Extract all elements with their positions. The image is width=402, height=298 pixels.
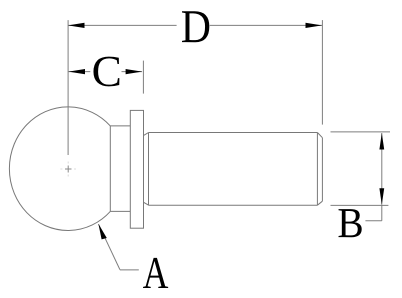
label C xyxy=(93,57,119,87)
center mark dash bottom xyxy=(67,175,69,177)
D dimension line right segment xyxy=(210,24,322,26)
center mark dash right xyxy=(74,168,76,170)
shaft left chamfer edge xyxy=(148,133,150,206)
flange xyxy=(130,110,143,228)
label B xyxy=(339,209,362,237)
neck top edge xyxy=(110,125,130,127)
extension line at flange face (C) xyxy=(142,61,144,94)
shaft top edge xyxy=(149,132,318,134)
center mark cross vertical xyxy=(67,166,69,173)
C dimension line left segment xyxy=(69,71,91,73)
shaft bottom edge xyxy=(149,204,318,206)
B extension line bottom xyxy=(331,204,389,206)
B arrow bottom xyxy=(379,188,384,205)
extension line from ball center (C/D datum) xyxy=(67,20,69,155)
shaft right chamfer edge xyxy=(316,133,318,206)
B extension line top xyxy=(331,131,391,133)
shaft right chamfer top xyxy=(317,133,322,138)
shaft left chamfer top xyxy=(144,133,149,136)
label D xyxy=(182,11,209,42)
A leader diagonal xyxy=(99,224,120,269)
B leader hook horizontal xyxy=(365,220,381,222)
C arrow left xyxy=(69,69,86,74)
A leader horizontal xyxy=(120,269,139,271)
D arrow left xyxy=(68,23,85,28)
label A xyxy=(143,258,168,288)
D arrow right xyxy=(306,23,323,28)
shaft right chamfer bottom xyxy=(317,201,322,205)
B leader hook vertical xyxy=(381,205,383,220)
center mark dash top xyxy=(67,162,69,164)
D dimension line left segment xyxy=(68,24,177,26)
shaft end face xyxy=(321,138,323,202)
C dimension line right segment xyxy=(122,71,143,73)
neck bottom edge xyxy=(110,210,130,212)
shaft left chamfer bottom xyxy=(144,202,149,205)
center mark dash left xyxy=(60,168,62,170)
B arrow top xyxy=(379,133,384,150)
extension line at shaft end (D) xyxy=(321,20,323,125)
ball (sphere outline) xyxy=(9,107,110,231)
center mark cross horizontal xyxy=(65,168,72,170)
ball truncation edge xyxy=(109,126,111,211)
B dimension line xyxy=(381,133,383,205)
C arrow right xyxy=(126,69,143,74)
A leader arrow xyxy=(98,224,106,240)
